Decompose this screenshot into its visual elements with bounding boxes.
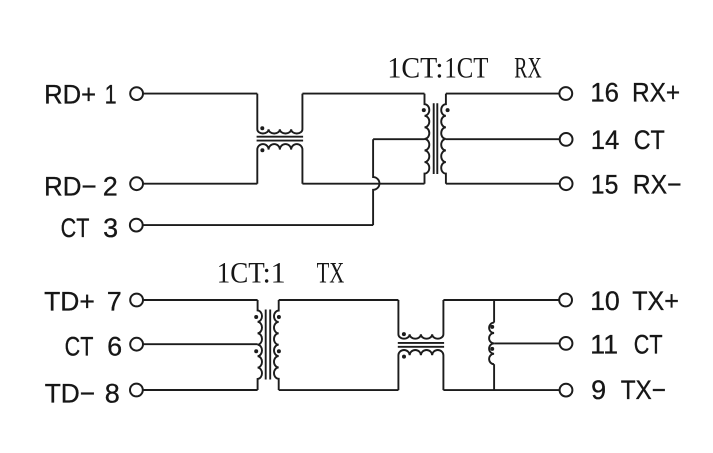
pin 1 terminal xyxy=(130,87,143,100)
wire pin3 to vertical riser xyxy=(143,224,373,226)
svg-text:6: 6 xyxy=(107,332,122,362)
pin 9 terminal xyxy=(560,384,573,397)
wire T2 secondary bottom to choke L2 xyxy=(279,389,399,391)
transformer T1 secondary winding xyxy=(441,94,446,184)
transformer T2 primary winding xyxy=(258,300,262,390)
svg-text:TX+: TX+ xyxy=(632,286,679,316)
choke L2 phase dot top xyxy=(402,332,406,336)
svg-text:9: 9 xyxy=(591,375,606,405)
svg-text:TD−: TD− xyxy=(45,378,95,408)
transformer T2 primary phase dot lower xyxy=(254,349,258,353)
svg-text:RX+: RX+ xyxy=(632,78,680,108)
pin 6 terminal xyxy=(130,338,143,351)
pin 7 terminal xyxy=(130,294,143,307)
svg-text:RX−: RX− xyxy=(633,170,682,200)
svg-text:15: 15 xyxy=(591,170,619,200)
wire choke L1 to transformer T1 bottom xyxy=(302,183,424,185)
transformer T2 primary phase dot upper xyxy=(254,315,258,319)
choke L1 top winding xyxy=(257,94,302,134)
transformer T2 core xyxy=(266,310,271,380)
wire choke L2 top to pin 10 xyxy=(443,299,559,301)
autotransformer L3 phase dot lower xyxy=(490,347,494,351)
wire T1 secondary top to pin 16 xyxy=(446,93,559,95)
transformer T2 secondary phase dot lower xyxy=(277,349,281,353)
svg-text:TD+: TD+ xyxy=(44,286,95,316)
svg-text:RX: RX xyxy=(514,51,542,84)
wire pin2 to choke L1 xyxy=(143,183,257,185)
svg-text:CT: CT xyxy=(61,213,90,243)
wire T1 secondary bottom to pin 15 xyxy=(446,183,560,185)
svg-text:TX: TX xyxy=(317,256,345,289)
svg-text:1CT: 1CT xyxy=(217,256,265,289)
svg-text:3: 3 xyxy=(103,213,118,243)
wire T2 secondary top to choke L2 xyxy=(279,299,399,301)
pin 14 terminal xyxy=(560,133,573,146)
svg-text:1: 1 xyxy=(271,256,286,289)
autotransformer L3 phase dot upper xyxy=(490,325,494,329)
autotransformer L3 winding xyxy=(489,323,494,365)
wire choke L1 to transformer T1 top xyxy=(302,93,424,95)
autotransformer L3 upper connection xyxy=(493,300,495,323)
svg-text:10: 10 xyxy=(590,286,620,316)
svg-text:TX−: TX− xyxy=(621,375,666,405)
svg-text:RD−: RD− xyxy=(44,172,97,202)
pin 15 terminal xyxy=(560,177,573,190)
wire riser with hop over RD- wire xyxy=(373,139,379,225)
choke L2 phase dot bottom xyxy=(402,355,406,359)
wire pin7 to transformer T2 xyxy=(143,299,257,301)
choke L2 core xyxy=(398,343,444,347)
choke L1 phase dot top xyxy=(260,126,264,130)
svg-text:1CT: 1CT xyxy=(444,51,488,84)
pin 10 terminal xyxy=(559,294,572,307)
transformer T1 primary winding xyxy=(425,94,430,184)
svg-text::: : xyxy=(263,256,271,289)
wire L3 center tap to pin 11 xyxy=(494,342,559,344)
pin 3 terminal xyxy=(130,219,143,232)
choke L1 core xyxy=(257,137,304,141)
svg-text:2: 2 xyxy=(103,172,118,202)
pin 2 terminal xyxy=(130,177,143,190)
transformer T1 core xyxy=(434,103,438,174)
svg-text:14: 14 xyxy=(591,125,620,155)
svg-text:CT: CT xyxy=(65,332,94,362)
transformer T1 secondary phase dot xyxy=(446,108,450,112)
svg-text:7: 7 xyxy=(107,286,122,316)
svg-text:8: 8 xyxy=(105,378,120,408)
choke L1 bottom winding xyxy=(257,144,302,184)
wire pin8 to transformer T2 xyxy=(143,389,257,391)
choke L2 bottom winding xyxy=(398,350,443,390)
pin 11 terminal xyxy=(560,337,573,350)
pin 16 terminal xyxy=(559,87,572,100)
wire pin1 to choke L1 xyxy=(143,93,257,95)
svg-text:11: 11 xyxy=(590,330,618,360)
wire choke L2 bottom to pin 9 xyxy=(443,389,559,391)
choke L1 phase dot bottom xyxy=(260,148,264,152)
wire T1 secondary center tap to pin 14 xyxy=(446,138,560,140)
choke L2 top winding xyxy=(398,300,443,339)
wire pin6 to T2 primary center tap xyxy=(143,343,257,345)
transformer T2 secondary winding xyxy=(274,300,279,390)
svg-text:RD+: RD+ xyxy=(44,80,96,110)
svg-text:CT: CT xyxy=(634,125,665,155)
pin 8 terminal xyxy=(130,384,143,397)
autotransformer L3 lower connection xyxy=(493,364,495,390)
svg-text:1: 1 xyxy=(105,80,117,110)
svg-text::: : xyxy=(435,51,443,84)
transformer T1 primary phase dot xyxy=(422,108,426,112)
svg-text:16: 16 xyxy=(590,78,619,108)
svg-text:CT: CT xyxy=(634,330,663,360)
transformer T2 secondary phase dot upper xyxy=(277,315,281,319)
svg-text:1CT: 1CT xyxy=(387,51,437,84)
wire riser to T1 primary center tap xyxy=(373,138,424,140)
